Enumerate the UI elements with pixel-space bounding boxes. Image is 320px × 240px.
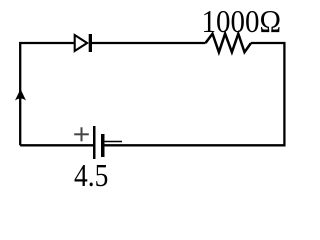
svg-text:4.5: 4.5: [74, 158, 108, 193]
plus label: [74, 127, 89, 141]
wire: top-left segment to diode: [20, 43, 74, 145]
minus label line: [105, 141, 123, 143]
wire: battery to bottom-left corner: [20, 144, 94, 146]
resistor R1 1000 ohm: [206, 34, 252, 53]
svg-text:1000Ω: 1000Ω: [202, 4, 282, 39]
battery B1: [74, 126, 122, 159]
wire: diode to resistor: [92, 42, 206, 44]
diode D1: [75, 34, 92, 52]
current arrow on left wire: [15, 89, 26, 101]
wire: resistor to top-right corner, down right side, bottom to battery: [103, 43, 284, 145]
short plate (-): [101, 134, 105, 157]
long plate (+): [93, 126, 96, 159]
